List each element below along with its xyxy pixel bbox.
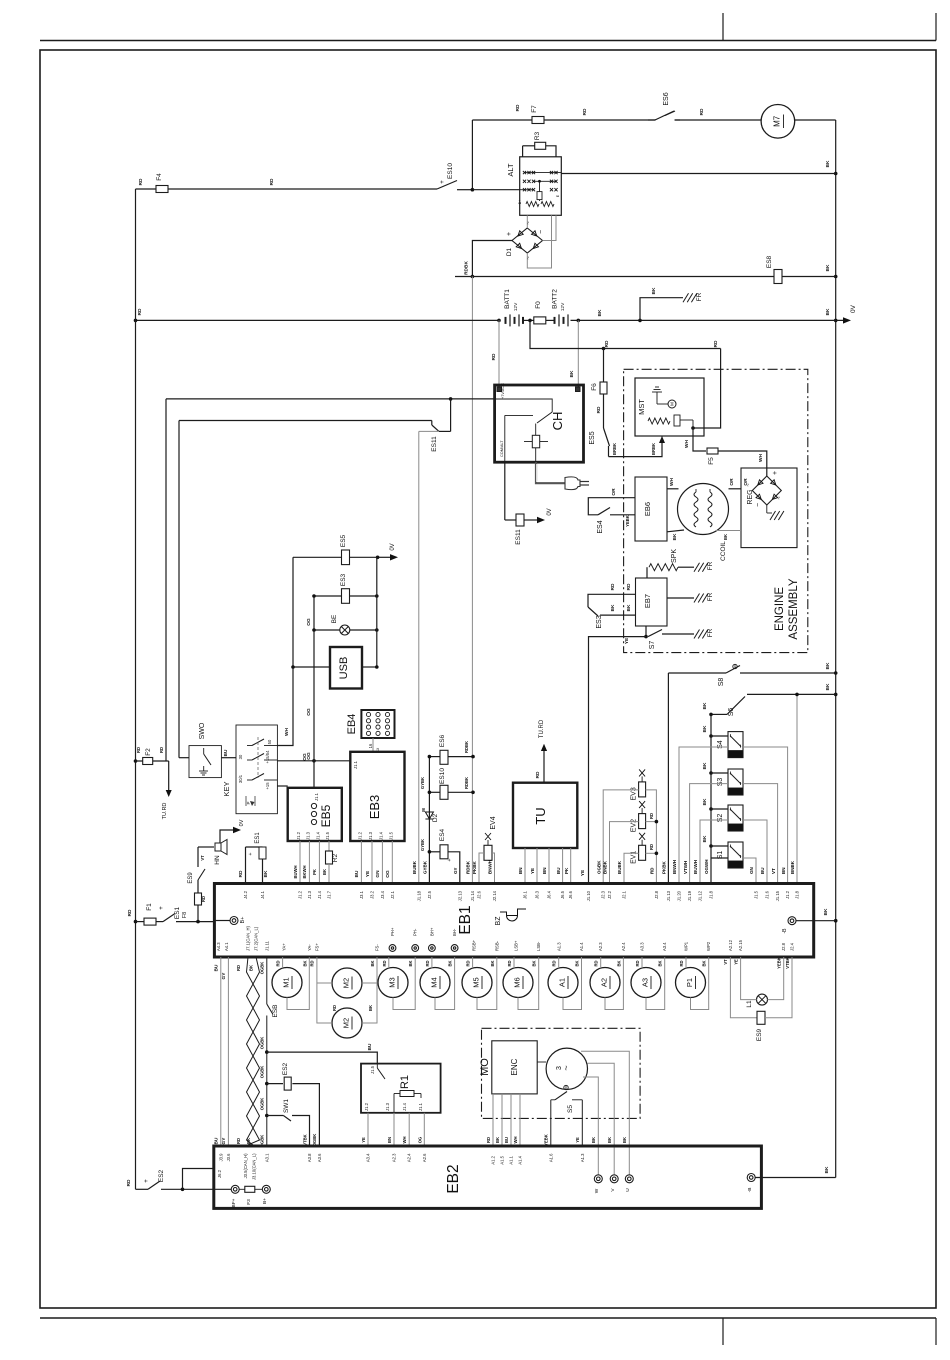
svg-text:BK: BK bbox=[672, 533, 678, 540]
svg-text:FS+: FS+ bbox=[314, 943, 319, 951]
svg-text:GY: GY bbox=[221, 1137, 227, 1145]
wire top feed right of M7 bbox=[795, 119, 836, 121]
svg-text:RD: RD bbox=[626, 583, 632, 590]
wire ENC to motor bbox=[537, 1061, 546, 1063]
svg-text:J4.2: J4.2 bbox=[243, 890, 248, 899]
svg-text:RD: RD bbox=[610, 583, 616, 590]
svg-text:WH: WH bbox=[669, 477, 675, 486]
wire USB right lead bbox=[362, 666, 377, 668]
fuse ES9 loop bbox=[730, 957, 757, 1018]
wire F1 branch y=921.6 bbox=[136, 921, 145, 923]
wire horn to 0V arrow bbox=[220, 830, 234, 843]
svg-text:J3.10(CAN_L): J3.10(CAN_L) bbox=[252, 1153, 257, 1180]
wire EB6 to CCOIL lower BK bbox=[667, 530, 684, 532]
wire MST junction to F5 bbox=[693, 428, 706, 451]
switch S3 box bbox=[728, 769, 743, 795]
node ES2/J3.2 branch bbox=[181, 1188, 185, 1192]
svg-text:RD: RD bbox=[596, 406, 602, 413]
switch S4 box bbox=[728, 732, 743, 758]
wire M3 leads bbox=[388, 957, 390, 968]
svg-text:RD: RD bbox=[594, 960, 599, 966]
svg-text:RD: RD bbox=[138, 178, 144, 185]
svg-text:A3.1: A3.1 bbox=[264, 1153, 269, 1162]
fuse F5 bbox=[707, 448, 718, 454]
svg-text:BZ: BZ bbox=[495, 916, 502, 926]
svg-text:ES2: ES2 bbox=[158, 1169, 165, 1182]
lamp BE bbox=[340, 625, 350, 635]
svg-text:RD: RD bbox=[535, 771, 541, 778]
svg-text:BK: BK bbox=[825, 160, 831, 167]
svg-text:A1.2: A1.2 bbox=[491, 1155, 496, 1164]
svg-text:ES6: ES6 bbox=[439, 734, 446, 747]
wire RDBK y=276.5 bbox=[455, 276, 836, 278]
connector EB4 box bbox=[361, 710, 394, 738]
svg-text:30/1: 30/1 bbox=[238, 774, 243, 783]
wire SWO to KEY BU bbox=[221, 757, 236, 759]
svg-text:ES2: ES2 bbox=[282, 1062, 289, 1075]
node battery line left bus bbox=[134, 319, 138, 323]
svg-text:EV2: EV2 bbox=[631, 819, 638, 832]
svg-text:J2.14: J2.14 bbox=[492, 890, 497, 901]
svg-text:EB5: EB5 bbox=[319, 804, 333, 827]
node S-switch common tap y=809 bbox=[709, 807, 713, 811]
svg-text:L1: L1 bbox=[746, 1000, 753, 1008]
node right bus y=276.5 bbox=[834, 275, 838, 279]
wire MST feed down x=720.6 bbox=[693, 349, 721, 429]
svg-text:J1.3: J1.3 bbox=[368, 831, 373, 840]
motor M3 bbox=[378, 968, 408, 998]
svg-text:A4.3: A4.3 bbox=[216, 942, 221, 951]
wire common vertical x=711 to EB1 J1.8 bbox=[710, 714, 712, 883]
svg-text:F8: F8 bbox=[182, 912, 188, 918]
svg-text:MO: MO bbox=[479, 1058, 491, 1076]
svg-text:BN: BN bbox=[781, 868, 786, 875]
svg-text:BK: BK bbox=[626, 604, 632, 611]
svg-text:YE: YE bbox=[365, 870, 371, 877]
switch ES2 main bbox=[148, 1181, 160, 1189]
svg-text:BK: BK bbox=[616, 960, 621, 966]
svg-text:BATT2: BATT2 bbox=[552, 289, 559, 309]
terminal W in EB2 bbox=[594, 1175, 602, 1183]
wire KEY 50 output up to ES5 line bbox=[277, 557, 293, 745]
svg-text:PH-: PH- bbox=[413, 928, 418, 936]
svg-text:+15/54: +15/54 bbox=[265, 750, 270, 764]
node right bus y=920.7 bbox=[834, 919, 838, 923]
svg-text:WH: WH bbox=[284, 727, 290, 736]
svg-text:BK: BK bbox=[702, 762, 708, 769]
svg-text:WP1: WP1 bbox=[684, 941, 689, 951]
wire EV3 left lead to EB1 bbox=[603, 790, 638, 884]
svg-text:RD: RD bbox=[159, 747, 164, 753]
node OG tap bbox=[312, 759, 316, 763]
spark plug SPK resistor bbox=[646, 567, 648, 578]
svg-text:A2: A2 bbox=[600, 978, 609, 987]
svg-text:A1.4: A1.4 bbox=[579, 942, 584, 951]
svg-text:LSB-: LSB- bbox=[536, 941, 541, 951]
wire ES3 loop upper RD bbox=[588, 594, 636, 607]
fold tick bottom right bbox=[935, 1318, 937, 1345]
svg-text:BK: BK bbox=[610, 604, 616, 611]
svg-text:J2.4: J2.4 bbox=[790, 942, 795, 951]
svg-text:M1: M1 bbox=[282, 977, 291, 987]
svg-text:EV4: EV4 bbox=[490, 816, 497, 829]
svg-text:J1.2: J1.2 bbox=[298, 890, 303, 899]
svg-text:BK: BK bbox=[246, 1138, 251, 1144]
svg-text:BK: BK bbox=[658, 960, 663, 966]
svg-text:J4.1: J4.1 bbox=[260, 890, 265, 899]
switch S2 box bbox=[728, 805, 743, 831]
svg-text:BH-: BH- bbox=[452, 928, 457, 936]
node junction F4 wire / ALT feed bbox=[471, 188, 475, 192]
svg-text:OGBK: OGBK bbox=[260, 1098, 265, 1111]
terminal B+ in EB2 bbox=[262, 1185, 270, 1193]
svg-text:+: + bbox=[440, 180, 446, 184]
svg-text:PKBK: PKBK bbox=[472, 860, 477, 874]
svg-text:ES3: ES3 bbox=[340, 573, 347, 586]
node left bus F2 bbox=[134, 759, 138, 763]
svg-text:ES5: ES5 bbox=[340, 534, 347, 547]
svg-text:B+: B+ bbox=[518, 200, 522, 205]
wire A2 leads bbox=[600, 957, 602, 968]
svg-text:0V: 0V bbox=[239, 819, 245, 826]
wire S4 NC output to EB1 bbox=[679, 747, 728, 884]
fuse ES6 horizontal link upper bbox=[429, 756, 440, 758]
wire CAN twisted pair bbox=[245, 957, 259, 1146]
solenoid valve EV1 bbox=[639, 845, 646, 860]
node BATT2 minus bbox=[577, 319, 581, 323]
terminal BF+ in EB2 bbox=[231, 1185, 239, 1193]
battery charger CH box bbox=[495, 385, 584, 462]
resistor R2 on EB5 wire bbox=[328, 841, 330, 851]
svg-text:BU: BU bbox=[214, 964, 220, 971]
svg-text:J1.14: J1.14 bbox=[470, 890, 475, 901]
arrow 0V right end bbox=[843, 317, 851, 323]
svg-text:RD: RD bbox=[425, 960, 430, 966]
svg-text:RD: RD bbox=[491, 353, 497, 360]
motor 3-phase in MO bbox=[546, 1048, 587, 1089]
svg-text:J1.2: J1.2 bbox=[357, 831, 362, 840]
svg-text:OGWH: OGWH bbox=[704, 860, 709, 875]
CH top pads bbox=[497, 387, 502, 392]
svg-text:OGBK: OGBK bbox=[260, 1066, 265, 1079]
wire vertical x=166 CH feed bbox=[165, 399, 167, 761]
wire CCOIL bottom to REG bbox=[716, 530, 741, 532]
fold tick top middle bbox=[722, 13, 724, 41]
wire battery mid tap to MST feed y=348.5 bbox=[530, 320, 721, 348]
svg-text:EB1: EB1 bbox=[457, 905, 474, 934]
svg-text:RD: RD bbox=[201, 896, 206, 902]
svg-text:WP2: WP2 bbox=[706, 941, 711, 951]
svg-text:RD: RD bbox=[699, 108, 705, 115]
svg-text:BK: BK bbox=[249, 965, 254, 971]
svg-text:A3.6: A3.6 bbox=[317, 1153, 322, 1162]
svg-text:BU: BU bbox=[223, 749, 229, 756]
svg-text:YE: YE bbox=[530, 868, 535, 874]
wires R1 to EB2 bbox=[367, 1113, 369, 1146]
svg-text:J1.13: J1.13 bbox=[666, 890, 671, 901]
wire D1 right terminal loop bbox=[543, 215, 557, 240]
svg-text:RD: RD bbox=[515, 104, 521, 111]
svg-text:EB6: EB6 bbox=[643, 502, 652, 516]
motor A3 bbox=[631, 968, 661, 998]
node right bus y=173.5 bbox=[834, 172, 838, 176]
wire battery 0V line y=320.4 bbox=[136, 319, 500, 321]
svg-text:BU: BU bbox=[354, 870, 360, 877]
horn HN bbox=[215, 843, 221, 851]
svg-text:M4: M4 bbox=[430, 977, 439, 987]
svg-text:VT: VT bbox=[771, 868, 776, 874]
svg-text:BU: BU bbox=[504, 1137, 509, 1143]
fuse F4 bbox=[156, 186, 168, 193]
svg-text:J3.2: J3.2 bbox=[370, 890, 375, 899]
svg-text:ES5: ES5 bbox=[589, 431, 596, 444]
svg-text:J1.8: J1.8 bbox=[795, 890, 800, 899]
svg-text:SPK: SPK bbox=[671, 549, 678, 563]
motor M2 pair bbox=[332, 968, 362, 998]
svg-text:U: U bbox=[625, 1188, 631, 1192]
svg-text:BRBK: BRBK bbox=[651, 443, 656, 455]
wire D1 plus output to x=472.4 vertical bbox=[472, 241, 512, 277]
switch ES3 engine loop bbox=[588, 607, 598, 616]
svg-text:GY: GY bbox=[453, 867, 458, 874]
wire A1 leads bbox=[558, 957, 560, 968]
svg-text:J1.4: J1.4 bbox=[315, 831, 320, 840]
svg-text:J1.5: J1.5 bbox=[370, 1065, 375, 1074]
svg-text:-B: -B bbox=[782, 928, 788, 934]
svg-text:RD: RD bbox=[466, 960, 471, 966]
svg-text:TU: TU bbox=[533, 807, 548, 824]
wire BU feed to R1 bbox=[267, 1052, 378, 1064]
wire CH to ES11 fuse 0V bbox=[504, 462, 506, 520]
wires ENC to EB2 bbox=[492, 1094, 494, 1146]
MST internal coil bbox=[648, 418, 670, 424]
wire PKBK vertical x=668.4 to EB1 J1.13 bbox=[667, 673, 669, 884]
svg-text:BN: BN bbox=[542, 868, 547, 875]
svg-text:OGBK: OGBK bbox=[312, 1134, 317, 1147]
svg-text:A1.6: A1.6 bbox=[548, 1153, 553, 1162]
svg-text:OGBK: OGBK bbox=[260, 962, 265, 975]
encoder ENC box bbox=[492, 1041, 537, 1094]
svg-text:+15: +15 bbox=[265, 782, 270, 790]
svg-text:J2.8: J2.8 bbox=[654, 890, 659, 899]
main controller EB1 box bbox=[214, 884, 813, 958]
svg-text:ES9: ES9 bbox=[188, 872, 194, 884]
svg-text:RDBK: RDBK bbox=[466, 860, 471, 874]
svg-text:BK: BK bbox=[702, 798, 708, 805]
svg-text:GYBK: GYBK bbox=[423, 860, 428, 874]
svg-text:J1.15: J1.15 bbox=[775, 890, 780, 901]
svg-text:FR: FR bbox=[707, 592, 714, 601]
svg-text:BK: BK bbox=[622, 1137, 627, 1143]
svg-text:YE: YE bbox=[733, 959, 738, 965]
wires EB5 to EB1 bbox=[299, 841, 301, 884]
wire FR branch up bbox=[640, 298, 683, 321]
svg-text:J2.1: J2.1 bbox=[390, 890, 395, 899]
node ES3 right bbox=[375, 594, 379, 598]
KEY mechanical link dashed bbox=[257, 737, 259, 778]
terminal B- inside EB1 to right bus bbox=[788, 917, 796, 925]
svg-text:12V: 12V bbox=[560, 302, 566, 311]
svg-text:YEBK: YEBK bbox=[625, 515, 630, 527]
wire vertical x=179 to SWO bbox=[178, 421, 180, 758]
ALT internal field resistor bbox=[539, 181, 541, 191]
svg-text:M6: M6 bbox=[513, 977, 522, 987]
svg-text:J1.1: J1.1 bbox=[314, 792, 319, 801]
svg-text:RD: RD bbox=[382, 960, 387, 966]
terminal U in EB2 bbox=[625, 1175, 633, 1183]
svg-text:RSB+: RSB+ bbox=[472, 939, 477, 951]
svg-text:BATT1: BATT1 bbox=[504, 289, 511, 309]
fold tick bottom middle bbox=[722, 1318, 724, 1345]
svg-text:PKBK: PKBK bbox=[662, 860, 667, 874]
svg-text:RD: RD bbox=[332, 1005, 337, 1011]
svg-text:ES11: ES11 bbox=[431, 436, 438, 452]
node ES9 branch bbox=[196, 920, 200, 924]
svg-text:J2.13: J2.13 bbox=[457, 890, 462, 901]
svg-text:J2.2: J2.2 bbox=[607, 890, 612, 899]
motor A2 bbox=[590, 968, 620, 998]
svg-text:BK: BK bbox=[322, 869, 327, 875]
svg-text:COM/ALT: COM/ALT bbox=[500, 440, 504, 457]
svg-text:ES1: ES1 bbox=[174, 906, 181, 919]
wire ES11 lower feed y=420.5 bbox=[179, 420, 432, 422]
svg-text:A1.4: A1.4 bbox=[518, 1155, 523, 1164]
wire S1 common stub bbox=[711, 845, 728, 847]
svg-text:RD: RD bbox=[650, 867, 655, 874]
svg-text:BK: BK bbox=[607, 1137, 612, 1143]
node F6 branch bbox=[602, 347, 606, 351]
svg-text:OG: OG bbox=[306, 618, 312, 626]
svg-text:ESB: ESB bbox=[272, 1004, 279, 1017]
wire KEY +15 output to EB5 bbox=[277, 785, 287, 787]
svg-text:MST: MST bbox=[637, 399, 646, 415]
svg-text:RD: RD bbox=[137, 308, 143, 315]
svg-text:YE: YE bbox=[361, 1137, 366, 1143]
svg-text:J2.6: J2.6 bbox=[477, 890, 482, 899]
svg-text:M2: M2 bbox=[342, 978, 351, 988]
fuse F8 bbox=[195, 893, 202, 905]
wire S8 line y=673 bbox=[668, 672, 726, 674]
REG bridge diamond bbox=[752, 476, 781, 505]
wire L1 leads bbox=[741, 957, 757, 1000]
svg-text:BK: BK bbox=[302, 960, 307, 966]
svg-text:EV1: EV1 bbox=[631, 851, 638, 864]
svg-text:YE: YE bbox=[575, 1137, 580, 1143]
svg-text:RD: RD bbox=[136, 747, 141, 753]
ALT internal terminal rows bbox=[524, 172, 561, 174]
svg-text:TU.RD: TU.RD bbox=[539, 719, 545, 738]
svg-text:W: W bbox=[594, 1188, 600, 1193]
wire P1 leads bbox=[685, 957, 687, 968]
svg-text:BK: BK bbox=[702, 835, 708, 842]
alternator ALT box bbox=[520, 157, 562, 216]
node D1 output on RDBK wire bbox=[471, 275, 475, 279]
switch ES9 horn bbox=[198, 869, 205, 880]
KEY contact 15/54 bbox=[247, 759, 252, 761]
svg-text:GY: GY bbox=[221, 972, 227, 980]
svg-text:RD: RD bbox=[486, 1137, 491, 1143]
wire KEY 15/54 output to EB3 J1.1 bbox=[277, 760, 350, 762]
fuse F2 bbox=[143, 758, 153, 765]
svg-text:BK: BK bbox=[723, 534, 728, 540]
motor M6 bbox=[503, 968, 533, 998]
svg-text:OG: OG bbox=[306, 752, 312, 760]
plug connector symbol bbox=[565, 477, 580, 490]
svg-text:BK: BK bbox=[702, 960, 707, 966]
svg-text:F0: F0 bbox=[535, 301, 542, 309]
wire S2 NO output to EB1 bbox=[743, 820, 767, 884]
switch S1 box bbox=[728, 842, 743, 868]
svg-text:J3.5(CAN_H): J3.5(CAN_H) bbox=[243, 1153, 248, 1179]
wire to MST lower pin y=456.6 bbox=[609, 441, 663, 457]
svg-text:BK: BK bbox=[495, 1137, 500, 1143]
svg-text:GYBK: GYBK bbox=[420, 839, 425, 851]
node right bus y=673 bbox=[834, 671, 838, 675]
svg-text:PH+: PH+ bbox=[390, 927, 395, 936]
svg-text:GN: GN bbox=[375, 870, 381, 878]
battery BATT2 cells bbox=[554, 317, 556, 324]
svg-text:F7: F7 bbox=[531, 105, 538, 113]
svg-text:BU: BU bbox=[214, 1137, 220, 1144]
wire OGBK J1.11 vertical with ESB bbox=[266, 957, 268, 1004]
wire BE lamp leads bbox=[314, 629, 340, 631]
wire F5 to REG bridge bbox=[718, 451, 767, 476]
svg-text:YEBK: YEBK bbox=[777, 957, 782, 969]
svg-text:RDBK: RDBK bbox=[464, 261, 470, 275]
MST internal ground bbox=[656, 392, 658, 404]
page outer border bottom line bbox=[40, 1317, 936, 1319]
wire EV2 right lead bbox=[646, 821, 657, 823]
terminal V in EB2 bbox=[610, 1175, 618, 1183]
switch ES1 main bbox=[163, 914, 175, 922]
wire BATT2 minus down to CH bbox=[577, 320, 579, 385]
svg-text:RD: RD bbox=[582, 108, 588, 115]
resistor R3 loop above ALT bbox=[522, 146, 524, 157]
svg-text:B+: B+ bbox=[262, 1198, 268, 1204]
fuse ES1 backup loop bbox=[245, 847, 247, 884]
svg-text:OG: OG bbox=[417, 1137, 422, 1144]
svg-text:OGBK: OGBK bbox=[596, 860, 601, 874]
svg-text:J1.5: J1.5 bbox=[388, 831, 393, 840]
svg-text:A2.15: A2.15 bbox=[738, 939, 743, 951]
svg-text:BK: BK bbox=[448, 960, 453, 966]
fuse F0 bbox=[534, 317, 546, 324]
svg-text:J6.5: J6.5 bbox=[560, 890, 565, 899]
svg-text:0V: 0V bbox=[547, 508, 553, 515]
svg-text:F2: F2 bbox=[145, 748, 152, 756]
EB1 top wire color labels bbox=[412, 860, 795, 875]
svg-text:J2.5: J2.5 bbox=[427, 890, 432, 899]
EB2 top pin labels bbox=[218, 1153, 585, 1180]
svg-text:BU: BU bbox=[760, 868, 765, 875]
svg-text:BUWH: BUWH bbox=[693, 860, 698, 874]
svg-text:BK: BK bbox=[569, 370, 575, 377]
wire CCOIL to REG OR bbox=[729, 488, 742, 490]
svg-text:S8: S8 bbox=[718, 678, 725, 687]
svg-text:BK: BK bbox=[591, 1137, 596, 1143]
CH charging plug cord bbox=[536, 462, 565, 483]
fuse F3 in EB2 bbox=[239, 1188, 245, 1190]
svg-text:FR: FR bbox=[707, 628, 714, 637]
svg-text:J7.1(CAN_H): J7.1(CAN_H) bbox=[246, 925, 251, 951]
svg-text:BK: BK bbox=[597, 309, 603, 316]
battery BATT1 cells bbox=[505, 317, 507, 324]
svg-text:ES8: ES8 bbox=[766, 255, 773, 268]
svg-text:BK: BK bbox=[370, 960, 375, 966]
svg-text:YE: YE bbox=[624, 637, 630, 644]
svg-text:M: M bbox=[421, 808, 426, 812]
svg-text:J1.5: J1.5 bbox=[754, 890, 759, 899]
